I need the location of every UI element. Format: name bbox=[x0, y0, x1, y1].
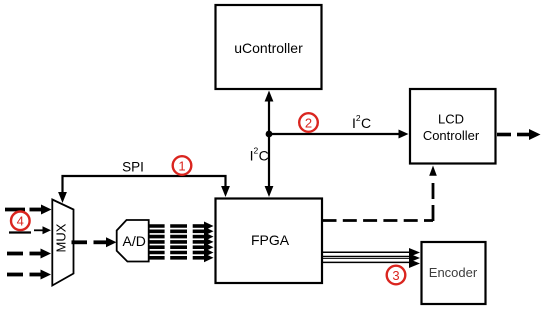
bus FPGA to Encoder line 3 bbox=[323, 257, 411, 259]
svg-text:Encoder: Encoder bbox=[429, 265, 478, 280]
callout 2 bbox=[299, 113, 318, 132]
svg-text:uController: uController bbox=[234, 40, 303, 56]
svg-text:FPGA: FPGA bbox=[251, 232, 290, 248]
wire MUX input 3 dashed bbox=[7, 249, 51, 259]
callout 3 bbox=[387, 266, 406, 285]
bus FPGA to Encoder arrowhead 3 bbox=[409, 259, 420, 268]
node junction I2C bbox=[266, 131, 273, 138]
bus A/D to FPGA dashed line 6 bbox=[149, 248, 214, 257]
callout 4 bbox=[11, 212, 30, 231]
svg-text:MUX: MUX bbox=[54, 223, 69, 252]
uController U1 bbox=[216, 5, 322, 89]
wire SPI FPGA to MUX bbox=[58, 176, 230, 203]
svg-text:A/D: A/D bbox=[123, 233, 146, 249]
svg-text:2: 2 bbox=[305, 115, 312, 130]
bus A/D to FPGA dashed line 7 bbox=[149, 253, 214, 262]
svg-text:1: 1 bbox=[178, 158, 185, 173]
bus A/D to FPGA dashed line 1 bbox=[149, 222, 214, 231]
bus FPGA to Encoder line 2 bbox=[323, 255, 411, 257]
svg-text:LCD: LCD bbox=[438, 112, 464, 127]
wire LCD output dashed bbox=[497, 129, 541, 140]
bus FPGA to Encoder arrowhead 1 bbox=[409, 248, 420, 257]
svg-text:C: C bbox=[361, 115, 371, 131]
bus FPGA to Encoder line 1 bbox=[323, 251, 411, 253]
bus A/D to FPGA dashed line 3 bbox=[149, 232, 214, 241]
FPGA U3 bbox=[216, 199, 323, 284]
label I2C (horizontal wire) bbox=[352, 113, 371, 131]
wire MUX input 2 (select) bbox=[9, 226, 51, 234]
label I2C (vertical wire) bbox=[250, 146, 269, 164]
wire FPGA to LCD dashed elbow bbox=[323, 166, 437, 222]
Encoder U6 bbox=[422, 242, 486, 304]
MUX U4 bbox=[52, 200, 73, 286]
wire MUX input 1 dashed bbox=[5, 205, 52, 215]
bus FPGA to Encoder arrowhead 2 bbox=[409, 254, 420, 263]
wire I2C vertical uController-FPGA bbox=[265, 91, 274, 198]
callout 1 bbox=[173, 156, 192, 175]
svg-text:4: 4 bbox=[17, 214, 24, 229]
bus A/D to FPGA dashed line 5 bbox=[149, 243, 214, 252]
bus FPGA to Encoder line 4 bbox=[323, 261, 411, 263]
svg-text:C: C bbox=[259, 147, 269, 163]
svg-text:3: 3 bbox=[392, 268, 399, 283]
wire I2C horizontal to LCD bbox=[269, 130, 409, 139]
bus A/D to FPGA dashed line 2 bbox=[149, 227, 214, 236]
A/D converter U5 bbox=[117, 220, 149, 262]
svg-text:SPI: SPI bbox=[122, 159, 144, 174]
LCD Controller U2 bbox=[410, 89, 496, 164]
wire MUX input 4 dashed bbox=[7, 270, 51, 280]
svg-text:Controller: Controller bbox=[423, 128, 480, 143]
wire MUX to A/D dashed bbox=[72, 237, 117, 247]
bus A/D to FPGA dashed line 4 bbox=[149, 237, 214, 246]
